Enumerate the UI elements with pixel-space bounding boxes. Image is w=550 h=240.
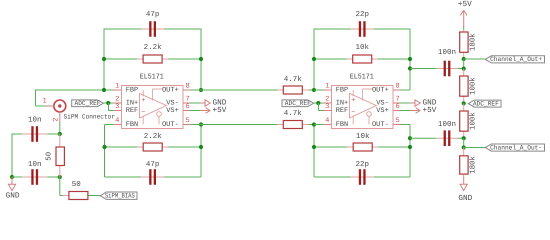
net flag Channel_A_Out+ [485, 56, 544, 63]
svg-text:OUT+: OUT+ [162, 86, 179, 94]
+5V supply symbol +5V (U1 pin6) [183, 106, 227, 115]
junction [199, 57, 203, 61]
wire [463, 138, 465, 147]
wire to Channel_A_Out- [464, 147, 486, 149]
junction [408, 57, 412, 61]
svg-text:−: − [141, 109, 145, 117]
wire feedback right vertical 2 [409, 29, 411, 91]
resistor R8 10k (stage2 bottom) [314, 132, 410, 151]
svg-text:10n: 10n [28, 116, 42, 125]
wire [458, 137, 464, 139]
svg-text:6: 6 [185, 103, 189, 111]
wire [463, 27, 465, 31]
junction [106, 101, 110, 105]
junction [462, 57, 466, 61]
svg-text:REF: REF [126, 107, 139, 115]
resistor R4 2.2k (stage1 bottom) [105, 132, 202, 151]
svg-text:−: − [351, 109, 355, 117]
wire down to bias resistor [59, 177, 61, 196]
wire [36, 105, 46, 107]
wire OUT+ pin to node 2 [401, 89, 411, 91]
wire to FBN pin 2 [314, 124, 324, 126]
junction [199, 122, 203, 126]
+5V supply symbol +5V (U2 pin6) [393, 106, 437, 115]
wire feedback left vertical 1 [103, 29, 105, 91]
svg-text:1: 1 [42, 97, 46, 105]
resistor R12 180k leads [463, 148, 465, 157]
svg-text:2.2k: 2.2k [144, 43, 163, 52]
wire to REF pin [109, 110, 114, 112]
svg-text:100k: 100k [469, 112, 478, 130]
ground symbol GND (U1 pin7) [183, 99, 227, 108]
op-amp U2 EL5171 [323, 74, 400, 129]
net flag Channel_A_Out- [485, 144, 544, 151]
wire flag to IN+ stage2 [314, 102, 324, 104]
capacitor C5 22p (stage2 top) [314, 10, 410, 37]
resistor R1 50 leads [59, 134, 61, 148]
svg-text:22p: 22p [355, 160, 369, 169]
svg-text:+5V: +5V [423, 106, 437, 115]
junction [408, 145, 412, 149]
junction [102, 57, 106, 61]
resistor R9 180k (top) [460, 32, 478, 52]
svg-text:OUT-: OUT- [162, 121, 179, 129]
svg-text:FBP: FBP [126, 86, 139, 94]
svg-text:10n: 10n [28, 160, 42, 169]
junction [408, 136, 412, 140]
svg-text:4: 4 [115, 117, 119, 125]
wire OUT- vertical down [200, 125, 202, 178]
net flag ADC_REF (input) [72, 100, 104, 107]
net flag SiPM_BIAS [100, 192, 137, 200]
svg-text:4.7k: 4.7k [284, 109, 303, 118]
svg-text:REF: REF [336, 107, 349, 115]
junction [102, 88, 106, 92]
svg-text:GND: GND [6, 191, 20, 200]
capacitor C6 22p (stage2 bottom) [314, 160, 410, 185]
wire to FBP pin 2 [314, 89, 324, 91]
svg-text:OUT-: OUT- [372, 121, 389, 129]
wire left vertical [11, 134, 13, 178]
svg-text:1: 1 [115, 82, 119, 90]
wire connector pin2 down [59, 122, 61, 134]
svg-text:EL5171: EL5171 [140, 74, 164, 82]
svg-text:EL5171: EL5171 [350, 74, 374, 82]
wire FBN vertical down 2 [313, 125, 315, 178]
ground symbol GND (U2 pin7) [393, 99, 437, 108]
resistor R11 100k (lower) [460, 111, 478, 131]
capacitor C3 47p (stage1 top) [104, 11, 201, 37]
capacitor C4 47p (stage1 bottom) [105, 161, 202, 185]
net flag ADC_REF (mid) [468, 100, 501, 107]
svg-text:100n: 100n [438, 48, 456, 57]
junction [10, 175, 14, 179]
svg-text:SiPM_BIAS: SiPM_BIAS [105, 193, 135, 200]
svg-text:4: 4 [325, 117, 329, 125]
capacitor C7 100n (output +) [410, 48, 458, 77]
wire to FBN pin [105, 124, 114, 126]
resistor R7 10k (stage2 top) [314, 43, 410, 63]
wire [35, 90, 37, 107]
resistor R10 100k leads [463, 69, 465, 76]
wire connector to FBP [36, 89, 114, 91]
wire [463, 59, 465, 69]
junction [312, 88, 316, 92]
junction [58, 132, 62, 136]
svg-text:FBN: FBN [126, 121, 139, 129]
wire to Channel_A_Out+ [464, 58, 486, 60]
capacitor C8 100n (output -) [410, 120, 458, 146]
junction [102, 145, 106, 149]
wire OUT- vertical down 2 [409, 125, 411, 178]
svg-text:22p: 22p [355, 10, 369, 19]
svg-text:+5V: +5V [213, 106, 227, 115]
svg-text:8: 8 [395, 82, 399, 90]
wire flag to IN+ [103, 102, 113, 104]
svg-text:50: 50 [46, 152, 54, 161]
svg-text:100n: 100n [438, 120, 456, 129]
svg-text:10k: 10k [355, 43, 369, 52]
capacitor C1 10n (upper left) [12, 116, 60, 142]
svg-text:OUT+: OUT+ [372, 86, 389, 94]
svg-text:+: + [141, 97, 145, 105]
junction [462, 101, 466, 105]
op-amp U1 EL5171 [113, 74, 190, 129]
svg-text:180k: 180k [469, 33, 478, 51]
svg-text:3: 3 [115, 103, 119, 111]
svg-text:ADC_REF: ADC_REF [75, 100, 101, 107]
svg-text:5: 5 [185, 117, 189, 125]
resistor R12 180k (bottom) [460, 156, 478, 175]
resistor R6 4.7k (lower) [201, 109, 314, 128]
wire to REF pin 2 [319, 110, 324, 112]
svg-text:6: 6 [395, 103, 399, 111]
junction [312, 145, 316, 149]
wire [458, 68, 464, 70]
wire IN+ to REF stage2 [318, 103, 320, 111]
junction [408, 66, 412, 70]
wire feedback right vertical 1 [200, 29, 202, 91]
junction [312, 57, 316, 61]
svg-text:3: 3 [325, 103, 329, 111]
resistor R5 4.7k (upper) [201, 75, 314, 94]
svg-text:47p: 47p [146, 161, 160, 169]
svg-text:VS+: VS+ [376, 107, 389, 115]
wire OUT- pin to node [191, 124, 202, 126]
wire feedback left vertical 2 [313, 29, 315, 91]
svg-text:100k: 100k [469, 77, 478, 95]
wire OUT- pin to node 2 [401, 124, 411, 126]
svg-text:8: 8 [185, 82, 189, 90]
junction [199, 145, 203, 149]
svg-text:VS+: VS+ [166, 107, 179, 115]
svg-text:4.7k: 4.7k [284, 75, 303, 84]
wire IN+ to REF [108, 103, 110, 111]
+5V supply symbol (top right) [458, 0, 472, 27]
net flag ADC_REF (stage2) [282, 100, 314, 107]
svg-text:GND: GND [458, 194, 472, 203]
svg-text:50: 50 [72, 180, 82, 189]
ground symbol GND (lower left) [6, 177, 20, 200]
svg-text:FBN: FBN [336, 121, 349, 129]
junction [58, 175, 62, 179]
svg-text:Channel_A_Out+: Channel_A_Out+ [490, 56, 542, 63]
svg-text:+5V: +5V [458, 0, 472, 9]
resistor R9 180k leads [463, 30, 465, 34]
wire OUT+ pin to node [191, 89, 202, 91]
svg-text:ADC_REF: ADC_REF [473, 100, 499, 107]
svg-text:SiPM Connector: SiPM Connector [64, 114, 116, 121]
resistor R11 100k leads [463, 103, 465, 111]
svg-text:5: 5 [395, 117, 399, 125]
svg-text:Channel_A_Out-: Channel_A_Out- [490, 144, 542, 151]
resistor R1 50 (termination) [46, 147, 65, 166]
svg-text:180k: 180k [469, 156, 478, 174]
resistor R2 50 (bias) [60, 180, 101, 199]
svg-text:2: 2 [52, 117, 60, 121]
ground symbol GND (bottom right) [458, 174, 472, 203]
capacitor C2 10n (lower left) [12, 160, 60, 185]
svg-text:2.2k: 2.2k [144, 132, 163, 141]
svg-text:1: 1 [325, 82, 329, 90]
resistor R3 2.2k (stage1 top) [104, 43, 201, 63]
svg-text:10k: 10k [356, 132, 370, 141]
junction [462, 145, 466, 149]
connector J1 SiPM Connector [42, 97, 115, 122]
junction [312, 122, 316, 126]
resistor R10 100k (upper) [460, 76, 478, 96]
svg-text:+: + [351, 97, 355, 105]
junction [316, 101, 320, 105]
svg-text:47p: 47p [146, 11, 160, 19]
junction [199, 88, 203, 92]
svg-text:ADC_REF: ADC_REF [285, 100, 311, 107]
svg-text:FBP: FBP [336, 86, 349, 94]
junction [462, 136, 466, 140]
junction [462, 67, 466, 71]
wire FBN vertical down [104, 125, 106, 178]
